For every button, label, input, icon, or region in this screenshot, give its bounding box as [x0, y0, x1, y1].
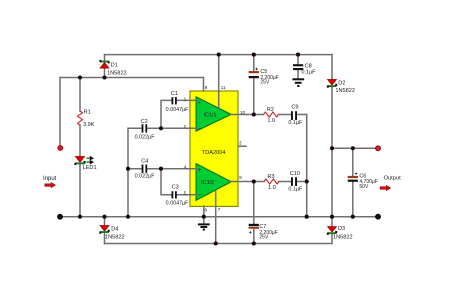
node D3/bottom rail — [330, 215, 334, 219]
svg-text:1.0: 1.0 — [267, 118, 275, 124]
resistor R3 — [264, 174, 279, 191]
node R1/rail2 — [78, 75, 82, 79]
svg-text:IC1/1: IC1/1 — [204, 113, 217, 119]
capacitor C10 — [288, 171, 303, 193]
svg-text:IC1/2: IC1/2 — [201, 180, 214, 186]
svg-text:C3: C3 — [172, 184, 179, 190]
svg-text:5: 5 — [184, 190, 187, 195]
node pin7/lower rail — [214, 241, 218, 245]
svg-text:4: 4 — [184, 165, 187, 170]
svg-text:1N5822: 1N5822 — [105, 235, 125, 241]
capacitor C3 — [166, 184, 190, 206]
wire D1 branch — [104, 55, 106, 78]
wire top supply rail — [105, 54, 333, 56]
ground under pin 6 — [198, 224, 210, 229]
wire bottom ground rail — [60, 216, 378, 218]
node C5/top rail — [252, 53, 256, 57]
node C6/bottom rail — [351, 215, 355, 219]
wire pin11 riser — [218, 55, 220, 109]
node C10/zobel — [305, 179, 309, 183]
svg-text:C4: C4 — [141, 158, 148, 164]
svg-text:0.0047µF: 0.0047µF — [166, 201, 190, 207]
wire C6 branch — [352, 148, 354, 216]
node bottom-right terminal — [376, 214, 381, 219]
svg-text:0.022µF: 0.022µF — [135, 134, 156, 140]
node LED1/bottom rail — [78, 215, 82, 219]
node zobel/bottom rail — [305, 215, 309, 219]
svg-text:D2: D2 — [338, 80, 345, 86]
svg-text:R3: R3 — [267, 174, 274, 180]
svg-text:LED1: LED1 — [83, 165, 97, 171]
svg-text:25V: 25V — [260, 80, 270, 86]
node pin11/top rail — [217, 53, 221, 57]
wire pin4 — [161, 168, 198, 170]
wire C1 link and pin1 — [161, 100, 198, 128]
svg-text:Input: Input — [43, 176, 57, 182]
capacitor C4 — [135, 158, 156, 179]
capacitor C1 — [166, 91, 190, 113]
Input label and arrow — [43, 176, 57, 188]
wire pin10 row — [231, 114, 307, 116]
op-amp IC1/1 — [196, 97, 231, 133]
svg-text:7: 7 — [218, 207, 221, 212]
ground under C8 — [292, 79, 304, 86]
svg-text:D1: D1 — [111, 62, 118, 68]
svg-text:1N5822: 1N5822 — [335, 88, 355, 94]
node C8/top rail — [296, 53, 300, 57]
wire pin6 drop — [203, 206, 205, 224]
svg-text:6: 6 — [205, 207, 208, 212]
node C7/lower rail — [252, 241, 256, 245]
node D2/output row — [330, 146, 334, 150]
wire pin3 stub — [238, 145, 246, 147]
wire pin9 riser — [203, 78, 205, 92]
svg-text:0.1µF: 0.1µF — [302, 69, 317, 75]
svg-text:3.9K: 3.9K — [83, 122, 95, 128]
node bottom-left terminal — [58, 214, 63, 219]
svg-text:3: 3 — [239, 140, 242, 145]
wire C2 row — [128, 127, 161, 129]
svg-text:+: + — [198, 101, 202, 107]
node D4/bottom rail — [102, 215, 106, 219]
svg-text:Output: Output — [384, 175, 401, 181]
svg-text:−: − — [198, 193, 202, 199]
diode D1 — [99, 60, 126, 77]
wire R1 branch — [79, 78, 81, 217]
capacitor C8 — [293, 63, 316, 75]
svg-text:11: 11 — [221, 85, 226, 90]
wire pin2 — [161, 127, 198, 129]
svg-text:0.1µF: 0.1µF — [288, 186, 303, 192]
svg-text:50V: 50V — [359, 184, 369, 190]
resistor R2 — [264, 107, 279, 124]
svg-text:D3: D3 — [338, 226, 345, 232]
svg-text:C2: C2 — [141, 119, 148, 125]
node pin8/C7/R3 — [252, 179, 256, 183]
wire lower return rail — [105, 243, 333, 245]
op-amp IC1 package body — [190, 91, 238, 206]
svg-text:D4: D4 — [111, 226, 118, 232]
svg-text:1.0: 1.0 — [268, 185, 276, 191]
diode D4 — [99, 225, 124, 240]
node C3/C4/pin4 — [159, 167, 163, 171]
op-amp IC1/2 — [196, 164, 231, 201]
svg-text:C10: C10 — [290, 171, 300, 177]
capacitor C9 — [288, 104, 303, 126]
svg-text:+: + — [198, 168, 202, 174]
wire pin8 row — [231, 181, 307, 183]
svg-text:R1: R1 — [84, 109, 91, 115]
resistor R1 — [78, 109, 95, 128]
wire D3 branch — [331, 217, 333, 244]
svg-text:1: 1 — [184, 96, 187, 101]
svg-text:C9: C9 — [291, 104, 298, 110]
svg-text:0.0047µF: 0.0047µF — [166, 107, 190, 113]
wire D2 branch and right column — [331, 55, 333, 217]
svg-text:1N5822: 1N5822 — [333, 235, 353, 241]
svg-text:9: 9 — [205, 85, 208, 90]
svg-text:25V: 25V — [259, 234, 269, 240]
diode D3 — [327, 226, 353, 240]
svg-text:10: 10 — [240, 110, 246, 115]
svg-text:C1: C1 — [171, 91, 178, 97]
wire pin7 drop — [215, 191, 217, 244]
node C2C4 riser/bottom rail — [126, 215, 130, 219]
svg-text:1N5822: 1N5822 — [107, 71, 127, 77]
wire second rail (V+ node) — [60, 77, 204, 79]
svg-text:R2: R2 — [267, 107, 274, 113]
wire input terminal drop — [59, 78, 61, 146]
svg-text:−: − — [198, 127, 202, 133]
node pin6/bottom rail — [202, 215, 206, 219]
svg-text:TDA2004: TDA2004 — [202, 150, 226, 156]
wire C3 link and pin5 — [161, 169, 198, 195]
Output label and arrow — [380, 175, 401, 190]
svg-text:2: 2 — [184, 124, 187, 129]
wire C8 branch — [297, 55, 299, 79]
svg-text:8: 8 — [239, 175, 242, 180]
wire output row — [332, 147, 376, 149]
node output terminal (+) — [376, 146, 381, 151]
LED LED1 — [74, 156, 96, 171]
wire zobel return riser — [306, 115, 308, 217]
node C6/output row — [351, 146, 355, 150]
capacitor C6 electrolytic — [348, 172, 378, 189]
diode D2 — [327, 79, 355, 93]
node C4/riser — [126, 167, 130, 171]
node C1/C2/pin2 — [159, 126, 163, 130]
capacitor C5 electrolytic — [249, 68, 279, 86]
node input terminal (+) — [58, 146, 63, 151]
wire C4 row — [128, 168, 161, 170]
svg-text:0.022µF: 0.022µF — [135, 173, 156, 179]
svg-text:C8: C8 — [305, 63, 312, 69]
wire C7 branch — [253, 182, 255, 244]
svg-text:0.1µF: 0.1µF — [288, 120, 303, 126]
capacitor C7 electrolytic — [249, 224, 278, 241]
capacitor C2 — [135, 119, 156, 140]
wire D4 branch — [104, 217, 106, 244]
wire C5 branch — [253, 55, 255, 115]
node D1/rail2 — [102, 75, 106, 79]
wire C2-C4 left riser — [127, 128, 129, 216]
node pin10/C5/R2 — [252, 112, 256, 116]
